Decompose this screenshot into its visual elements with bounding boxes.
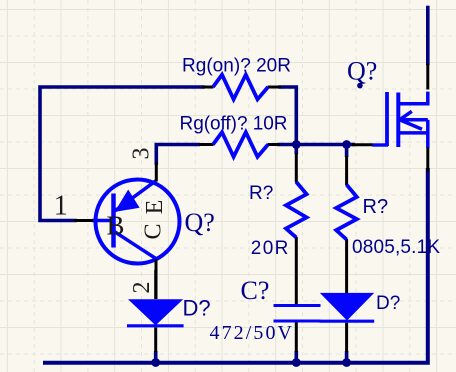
svg-text:Rg(on)? 20R: Rg(on)? 20R <box>182 55 291 76</box>
label Q2 anchor dot <box>357 83 363 89</box>
transistor Q1 base lead <box>92 219 114 222</box>
resistor R3 Rg(on) body <box>213 75 268 100</box>
mosfet Q2 source vertical <box>426 120 430 148</box>
svg-text:R?: R? <box>249 183 273 204</box>
transistor Q1 collector pin 2 <box>155 260 158 300</box>
svg-text:Rg(off)? 10R: Rg(off)? 10R <box>180 114 288 135</box>
resistor R2 pins <box>345 156 348 294</box>
junction: bottom rail at D1 <box>151 358 160 367</box>
resistor R1 pins <box>295 153 298 304</box>
wire: MOSFET drain up <box>426 8 430 64</box>
resistor R3 Rg(on) pins <box>202 86 281 89</box>
transistor Q1 base bar <box>111 194 116 248</box>
svg-text:E: E <box>142 200 168 215</box>
transistor Q1 emitter arrow <box>115 190 140 213</box>
svg-text:20R: 20R <box>251 238 289 259</box>
junction: gate node at R2 column <box>342 140 351 149</box>
mosfet Q2 source pin <box>426 148 429 173</box>
diode D2 bottom pin <box>345 323 348 352</box>
mosfet Q2 drain stub <box>398 92 428 104</box>
svg-text:Q?: Q? <box>347 57 377 86</box>
svg-text:R?: R? <box>363 196 389 218</box>
resistor R2 body <box>336 185 357 240</box>
transistor Q1 base pin <box>74 219 93 222</box>
svg-text:C?: C? <box>241 276 270 305</box>
capacitor C1 bottom plate <box>274 320 321 323</box>
mosfet Q2 body stub with arrow <box>400 111 428 129</box>
mosfet Q2 source stub <box>398 131 428 135</box>
wire: emitter to Rg(off) input <box>156 145 198 164</box>
svg-text:0805,5.1K: 0805,5.1K <box>352 237 440 258</box>
mosfet Q2 gate bar <box>385 92 389 146</box>
junction: bottom rail at C1 <box>292 358 301 367</box>
resistor R4 Rg(off) body <box>213 132 268 157</box>
svg-text:472/50V: 472/50V <box>210 322 293 344</box>
diode D2 body <box>320 293 374 321</box>
resistor R4 Rg(off) pins <box>199 143 280 146</box>
wire: Rg(on) output down to gate node <box>280 87 296 145</box>
mosfet Q2 gate pin <box>352 143 373 146</box>
wire: top-left loop (Rg input / base net) <box>40 87 203 221</box>
diode D1 cathode bar <box>127 324 184 327</box>
svg-text:3: 3 <box>129 148 155 160</box>
svg-text:C: C <box>141 223 167 239</box>
transistor Q1 collector line <box>114 231 158 260</box>
svg-text:D?: D? <box>376 293 400 314</box>
transistor Q1 emitter line <box>115 181 156 211</box>
svg-text:D?: D? <box>183 296 211 321</box>
diode D2 cathode bar <box>320 320 375 323</box>
transistor Q1 circle <box>96 180 180 264</box>
capacitor C1 bottom pin <box>295 323 298 353</box>
mosfet Q2 drain pin <box>426 64 429 90</box>
wire: C1 bottom stub <box>294 351 298 363</box>
transistor Q1 emitter pin 3 <box>155 162 158 182</box>
svg-text:1: 1 <box>54 191 68 222</box>
svg-text:B: B <box>107 211 125 241</box>
junction: bottom rail at D2 <box>342 358 351 367</box>
mosfet Q2 gate lead <box>372 143 388 146</box>
junction: gate node at R1 column <box>292 140 301 149</box>
wire: R2 top stub <box>345 145 349 158</box>
wire: D1 bottom stub <box>154 351 158 363</box>
svg-text:2: 2 <box>129 282 155 294</box>
wire: bottom rail <box>45 170 428 363</box>
svg-text:Q?: Q? <box>185 208 215 237</box>
wire: D2 bottom stub <box>345 351 349 363</box>
mosfet Q2 channel bar <box>396 93 400 148</box>
resistor R1 body <box>286 182 307 238</box>
wire: R1 top stub <box>294 145 298 155</box>
diode D1 pins <box>154 270 157 352</box>
capacitor C1 top plate <box>274 304 321 307</box>
wire: gate row from Rg(off) out to MOSFET gate <box>279 143 353 147</box>
diode D1 body <box>128 299 183 325</box>
